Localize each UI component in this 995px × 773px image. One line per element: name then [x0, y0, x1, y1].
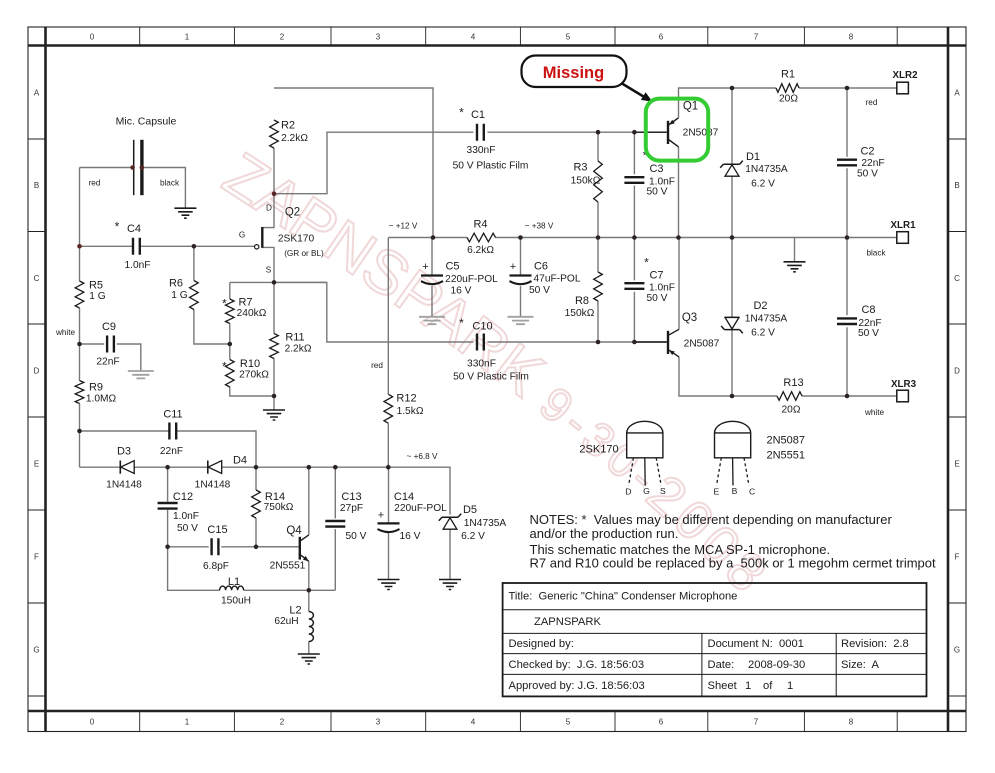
ground C14	[378, 580, 400, 590]
svg-text:R8: R8	[575, 295, 589, 307]
resistor R12	[384, 394, 393, 423]
svg-text:XLR2: XLR2	[892, 70, 918, 81]
svg-text:2N5087: 2N5087	[683, 128, 719, 139]
svg-text:50 V: 50 V	[858, 328, 879, 339]
svg-text:D4: D4	[233, 455, 247, 467]
svg-text:C7: C7	[649, 270, 663, 282]
capacitor C10	[477, 334, 484, 351]
wire ground rail y=237.5	[388, 237, 897, 239]
svg-text:1N4148: 1N4148	[195, 480, 231, 491]
wire Q1 collector lead	[678, 147, 680, 238]
svg-text:Designed by:: Designed by:	[509, 638, 574, 650]
svg-text:B: B	[34, 181, 39, 190]
junction mic capsule right plate	[140, 165, 145, 170]
wire C6 leads	[520, 238, 522, 317]
svg-text:R11: R11	[285, 332, 304, 344]
svg-text:E: E	[714, 487, 720, 497]
svg-text:white: white	[55, 328, 76, 337]
svg-text:and/or the production run.: and/or the production run.	[530, 526, 679, 541]
transistor Q2 jfet	[262, 194, 274, 283]
wire C7 leads	[633, 238, 635, 343]
svg-text:D2: D2	[753, 300, 767, 312]
junction C10 line R8	[596, 340, 601, 345]
svg-text:2N5551: 2N5551	[767, 450, 806, 462]
svg-text:2N5087: 2N5087	[684, 339, 720, 350]
junction D3 D4 C12	[165, 465, 170, 470]
capacitor C3	[624, 177, 644, 183]
diode D1 zener	[720, 161, 743, 168]
junction emitter rail D1	[730, 86, 735, 91]
junction Q4 emitter L1 L2	[307, 588, 312, 593]
svg-text:2SK170: 2SK170	[278, 234, 315, 245]
wire Q3 collector lead	[678, 238, 680, 330]
junction R13 line C8	[845, 394, 850, 399]
svg-text:50 V: 50 V	[529, 285, 550, 296]
svg-text:5: 5	[566, 718, 571, 727]
svg-text:C15: C15	[207, 524, 227, 536]
svg-text:R4: R4	[473, 219, 487, 231]
junction C13 top	[333, 465, 338, 470]
svg-text:+: +	[510, 261, 516, 273]
ground C6	[508, 317, 534, 324]
wire mic to C4 node	[79, 168, 81, 247]
svg-text:Approved by: J.G. 18:56:03: Approved by: J.G. 18:56:03	[509, 680, 645, 692]
svg-text:C3: C3	[649, 163, 663, 175]
junction R13 line D2	[730, 394, 735, 399]
svg-text:C11: C11	[163, 409, 182, 421]
svg-text:Title: Generic "China" Conden: Title: Generic "China" Condenser Microph…	[509, 590, 738, 602]
diode D3	[119, 461, 121, 474]
wire R9 leads	[79, 344, 81, 431]
junction rail C6	[518, 235, 523, 240]
svg-text:20Ω: 20Ω	[779, 94, 798, 105]
wire XLR1 ground stem	[794, 238, 796, 262]
svg-text:*: *	[222, 360, 227, 374]
svg-text:6.8pF: 6.8pF	[203, 561, 229, 572]
svg-text:16 V: 16 V	[400, 531, 421, 542]
svg-text:G: G	[239, 231, 245, 240]
notes text	[530, 512, 936, 571]
package outline 2SK170	[627, 421, 663, 458]
svg-text:47uF-POL: 47uF-POL	[534, 274, 581, 285]
svg-text:4: 4	[471, 33, 476, 42]
svg-text:2.2kΩ: 2.2kΩ	[281, 133, 308, 144]
svg-text:D: D	[954, 367, 960, 376]
capacitor C12	[158, 503, 178, 509]
svg-text:R3: R3	[573, 162, 587, 174]
wire C3 leads	[633, 132, 635, 237]
svg-text:L2: L2	[289, 605, 301, 617]
wire Q2 source rail	[230, 281, 327, 283]
svg-text:1N4735A: 1N4735A	[745, 314, 788, 325]
connector XLR1	[897, 232, 909, 244]
svg-text:Document N: 0001: Document N: 0001	[708, 638, 804, 650]
svg-text:1: 1	[185, 33, 190, 42]
svg-text:50 V Plastic Film: 50 V Plastic Film	[453, 161, 529, 172]
wire C13 leads	[334, 467, 336, 590]
capacitor C4	[133, 238, 140, 255]
svg-text:6: 6	[659, 718, 664, 727]
svg-text:150uH: 150uH	[221, 596, 251, 607]
svg-text:G: G	[33, 646, 39, 655]
resistor R7	[226, 299, 235, 324]
junction rail R3 R8	[596, 235, 601, 240]
wire C5 leads	[431, 238, 433, 317]
wire D2 leads	[731, 238, 733, 397]
svg-text:50 V: 50 V	[346, 531, 367, 542]
ground D5	[439, 580, 461, 590]
callout arrow	[622, 84, 646, 98]
junction R12 C14 +6.8V line	[386, 465, 391, 470]
svg-text:D5: D5	[463, 504, 477, 516]
svg-text:R12: R12	[396, 393, 416, 405]
svg-text:1.0nF: 1.0nF	[124, 260, 150, 271]
resistor R13	[777, 392, 802, 401]
junction rail C2 C8	[845, 235, 850, 240]
svg-text:R2: R2	[281, 120, 295, 132]
wire R8 leads	[597, 238, 599, 343]
capacitor C14	[378, 522, 400, 524]
resistor R14	[252, 490, 261, 518]
svg-text:20Ω: 20Ω	[782, 405, 801, 416]
svg-text:C: C	[34, 274, 40, 283]
svg-text:R7 and R10 could be replaced b: R7 and R10 could be replaced by a 500k o…	[530, 556, 936, 571]
svg-text:Q2: Q2	[285, 207, 300, 219]
svg-text:B: B	[732, 486, 738, 496]
capacitor C1	[477, 124, 484, 141]
svg-text:E: E	[34, 460, 39, 469]
wire L2 leads to ground	[308, 590, 310, 653]
junction C10 line C7 Q3 base	[632, 340, 637, 345]
junction R9 C11	[77, 429, 82, 434]
wire C1 right to Q1 base	[487, 131, 666, 133]
wire C12 leads	[167, 467, 169, 547]
svg-text:*: *	[115, 220, 120, 234]
svg-text:50 V: 50 V	[647, 293, 668, 304]
svg-text:C: C	[749, 487, 755, 497]
inductor L1	[220, 586, 244, 590]
svg-text:~ +6.8 V: ~ +6.8 V	[407, 452, 438, 461]
wire R7 leads	[229, 282, 231, 344]
svg-text:R6: R6	[169, 278, 183, 290]
wire mic capsule right to ground	[144, 168, 186, 208]
wire C11 line	[80, 431, 257, 467]
wire L1 line	[168, 547, 336, 591]
svg-text:D: D	[625, 487, 631, 497]
wire D5 bottom to ground	[449, 530, 451, 579]
junction C4 R6	[192, 244, 197, 249]
svg-text:8: 8	[849, 718, 854, 727]
wire C10 right to Q3 base	[487, 341, 666, 343]
svg-text:27pF: 27pF	[340, 503, 363, 514]
svg-text:S: S	[266, 266, 272, 275]
capacitor C13	[325, 521, 345, 527]
capacitor C8	[837, 318, 857, 324]
svg-text:black: black	[866, 249, 886, 258]
diode D5 zener	[439, 514, 461, 521]
svg-text:50 V: 50 V	[857, 169, 878, 180]
svg-text:0: 0	[90, 33, 95, 42]
wire R10 leads	[230, 344, 274, 396]
wire C8 leads	[846, 238, 848, 397]
svg-text:5: 5	[566, 33, 571, 42]
svg-text:Date:: Date:	[708, 659, 735, 671]
svg-text:3: 3	[376, 718, 381, 727]
svg-text:2: 2	[280, 718, 285, 727]
svg-text:C6: C6	[534, 261, 548, 273]
svg-text:C9: C9	[102, 321, 116, 333]
svg-text:black: black	[160, 179, 180, 188]
wire R6 leads	[194, 246, 230, 344]
ground C5	[419, 317, 445, 324]
svg-text:Revision: 2.8: Revision: 2.8	[841, 638, 909, 650]
wire C10 line from Q2 source rail	[274, 282, 473, 342]
svg-text:220uF-POL: 220uF-POL	[394, 503, 447, 514]
svg-text:G: G	[643, 486, 650, 496]
svg-text:R5: R5	[89, 280, 103, 292]
svg-text:D1: D1	[746, 151, 760, 163]
wire C15 line to Q4 base	[168, 546, 299, 548]
svg-text:C10: C10	[472, 321, 492, 333]
wire R12 vertical	[387, 238, 389, 468]
svg-text:6.2 V: 6.2 V	[751, 328, 775, 339]
svg-text:2008-09-30: 2008-09-30	[748, 659, 805, 671]
capacitor C2	[837, 160, 857, 166]
svg-text:50 V Plastic Film: 50 V Plastic Film	[453, 372, 529, 383]
svg-text:A: A	[954, 89, 960, 98]
svg-text:R9: R9	[89, 382, 103, 394]
svg-text:C13: C13	[341, 491, 361, 503]
junction rail D1 D2	[730, 235, 735, 240]
svg-text:*: *	[644, 256, 649, 270]
svg-text:3: 3	[376, 33, 381, 42]
transistor Q3	[634, 341, 666, 343]
svg-text:C4: C4	[127, 223, 141, 235]
svg-text:1N4148: 1N4148	[106, 480, 142, 491]
connector XLR3	[897, 390, 909, 402]
svg-text:NOTES: * Values may be differ: NOTES: * Values may be different dependi…	[530, 512, 893, 527]
svg-text:R1: R1	[781, 69, 795, 81]
svg-text:of: of	[763, 680, 773, 692]
svg-text:C2: C2	[860, 146, 874, 158]
svg-text:1.0MΩ: 1.0MΩ	[86, 394, 117, 405]
ground R10 R11	[263, 410, 285, 420]
svg-text:Q1: Q1	[683, 101, 698, 113]
capacitor C15	[212, 538, 219, 555]
svg-text:50 V: 50 V	[177, 523, 198, 534]
svg-text:16 V: 16 V	[451, 286, 472, 297]
wire R5 leads	[79, 246, 81, 344]
svg-text:C: C	[954, 274, 960, 283]
svg-text:XLR3: XLR3	[891, 379, 917, 390]
title block	[503, 583, 927, 696]
svg-text:2SK170: 2SK170	[579, 444, 618, 456]
diode D4	[207, 461, 209, 474]
capacitor C6	[510, 274, 532, 276]
capacitor C9	[107, 336, 114, 353]
svg-text:7: 7	[754, 718, 759, 727]
wire Q2 drain to C1 left	[274, 132, 473, 194]
svg-text:G: G	[954, 646, 960, 655]
wire C14 leads	[388, 467, 390, 579]
svg-text:+: +	[378, 510, 384, 522]
svg-text:C14: C14	[394, 491, 414, 503]
svg-text:1.0nF: 1.0nF	[173, 511, 199, 522]
transistor Q1	[634, 131, 666, 133]
transistor Q4	[256, 546, 299, 548]
wire R2 bottom to Q2 drain node	[273, 148, 275, 194]
wire +12V rail to R2 top	[274, 88, 433, 238]
svg-text:62uH: 62uH	[274, 616, 298, 627]
junction C1 line C3 Q1 base	[632, 130, 637, 135]
ground mic capsule	[174, 208, 196, 218]
svg-text:22nF: 22nF	[160, 446, 183, 457]
connector XLR2	[897, 82, 909, 94]
svg-text:750kΩ: 750kΩ	[264, 502, 294, 513]
resistor R11	[270, 334, 279, 359]
svg-text:1: 1	[787, 680, 793, 692]
svg-text:6.2 V: 6.2 V	[751, 179, 775, 190]
resistor R1	[776, 84, 799, 93]
junction rail R2 feed	[431, 235, 436, 240]
ground C9 gray	[128, 371, 154, 378]
svg-text:Q3: Q3	[682, 312, 697, 324]
wire D3 D4 line	[80, 467, 451, 514]
svg-text:*: *	[459, 106, 464, 120]
resistor R4	[467, 233, 496, 242]
capacitor C5	[421, 274, 443, 276]
svg-text:C1: C1	[471, 109, 485, 121]
svg-text:1: 1	[185, 718, 190, 727]
junction Q4 collector +6.8V line	[307, 465, 312, 470]
svg-text:2.2kΩ: 2.2kΩ	[285, 344, 312, 355]
wire mic capsule left	[80, 167, 133, 169]
svg-text:1.0nF: 1.0nF	[649, 283, 675, 294]
wire R14 leads	[255, 467, 257, 547]
junction R6 R7 R10	[228, 342, 233, 347]
svg-text:22nF: 22nF	[96, 357, 119, 368]
svg-text:*: *	[459, 316, 464, 330]
ground L2	[298, 654, 320, 664]
junction C4 R5 left column	[77, 244, 82, 249]
svg-text:330nF: 330nF	[467, 359, 496, 370]
svg-text:1: 1	[745, 680, 751, 692]
svg-text:S: S	[660, 486, 666, 496]
junction Q2 source node S	[272, 280, 277, 285]
svg-text:1 G: 1 G	[89, 291, 105, 302]
svg-text:22nF: 22nF	[861, 158, 884, 169]
junction rail C3 C7	[632, 235, 637, 240]
wire R3 leads	[597, 132, 599, 237]
junction C12 C15	[165, 545, 170, 550]
resistor R3	[594, 161, 603, 202]
svg-text:D: D	[34, 367, 40, 376]
wire Q4 emitter lead	[308, 561, 310, 590]
svg-text:2: 2	[280, 33, 285, 42]
svg-text:R13: R13	[783, 377, 803, 389]
svg-text:Size: A: Size: A	[841, 659, 879, 671]
svg-text:7: 7	[754, 33, 759, 42]
svg-text:red: red	[371, 361, 383, 370]
svg-text:1N4735A: 1N4735A	[745, 164, 788, 175]
svg-text:Sheet: Sheet	[708, 680, 738, 692]
svg-text:ZAPNSPARK: ZAPNSPARK	[534, 616, 601, 628]
junction R5 C9 R9	[77, 342, 82, 347]
wire C2 leads	[846, 88, 848, 238]
wire R9 node down to D3 line	[79, 431, 81, 467]
svg-text:C5: C5	[445, 261, 459, 273]
svg-text:50 V: 50 V	[647, 187, 668, 198]
wire Q1 emitter rail to XLR2	[679, 88, 897, 118]
svg-text:~ +38 V: ~ +38 V	[525, 222, 554, 231]
mic capsule	[133, 140, 135, 195]
package outline 2N5087 2N5551	[715, 421, 751, 458]
svg-text:220uF-POL: 220uF-POL	[445, 274, 498, 285]
callout bubble Missing	[522, 56, 627, 88]
svg-text:6: 6	[659, 33, 664, 42]
diode D2 zener	[721, 317, 743, 333]
wire Q3 emitter to R13 line and XLR3	[679, 357, 897, 396]
svg-text:2N5087: 2N5087	[767, 435, 806, 447]
capacitor C7	[624, 283, 644, 289]
svg-text:6.2kΩ: 6.2kΩ	[467, 245, 494, 256]
svg-text:Mic. Capsule: Mic. Capsule	[116, 116, 177, 128]
svg-text:L1: L1	[228, 576, 240, 588]
resistor R9	[75, 381, 84, 404]
svg-text:R10: R10	[240, 358, 260, 370]
svg-text:C8: C8	[861, 304, 875, 316]
svg-text:A: A	[34, 89, 40, 98]
junction emitter rail C2	[845, 86, 850, 91]
junction D4 C11 R14	[254, 465, 259, 470]
svg-text:C12: C12	[173, 491, 193, 503]
resistor R5	[75, 281, 84, 308]
svg-text:red: red	[89, 179, 101, 188]
svg-text:8: 8	[849, 33, 854, 42]
svg-text:6.2 V: 6.2 V	[461, 531, 485, 542]
inductor L2	[309, 612, 314, 642]
svg-text:330nF: 330nF	[467, 145, 496, 156]
svg-text:R7: R7	[238, 297, 252, 309]
junction C1 line R3	[596, 130, 601, 135]
svg-text:white: white	[864, 408, 885, 417]
svg-text:270kΩ: 270kΩ	[239, 370, 269, 381]
svg-text:2N5551: 2N5551	[270, 561, 306, 572]
svg-text:~ +12 V: ~ +12 V	[389, 222, 418, 231]
junction Q2 drain R2	[272, 191, 277, 196]
svg-text:B: B	[954, 181, 959, 190]
svg-text:*: *	[222, 297, 227, 311]
svg-text:150kΩ: 150kΩ	[571, 176, 601, 187]
svg-text:red: red	[866, 98, 878, 107]
svg-text:0: 0	[90, 718, 95, 727]
svg-text:(GR or BL): (GR or BL)	[284, 249, 324, 258]
svg-text:240kΩ: 240kΩ	[237, 308, 267, 319]
wire Q4 collector lead	[308, 467, 310, 535]
ground XLR1	[784, 262, 806, 272]
junction rail Q1 collector	[676, 235, 681, 240]
svg-text:+: +	[422, 261, 428, 273]
resistor R6	[190, 281, 199, 310]
resistor R8	[594, 272, 603, 301]
wire C4 line	[80, 245, 255, 247]
svg-text:F: F	[34, 553, 39, 562]
wire D1 leads	[731, 88, 733, 238]
junction mic capsule left plate	[130, 165, 135, 170]
junction C15 R14 Q4 base	[254, 545, 259, 550]
capacitor C11	[169, 423, 176, 440]
svg-text:Missing: Missing	[543, 64, 604, 82]
